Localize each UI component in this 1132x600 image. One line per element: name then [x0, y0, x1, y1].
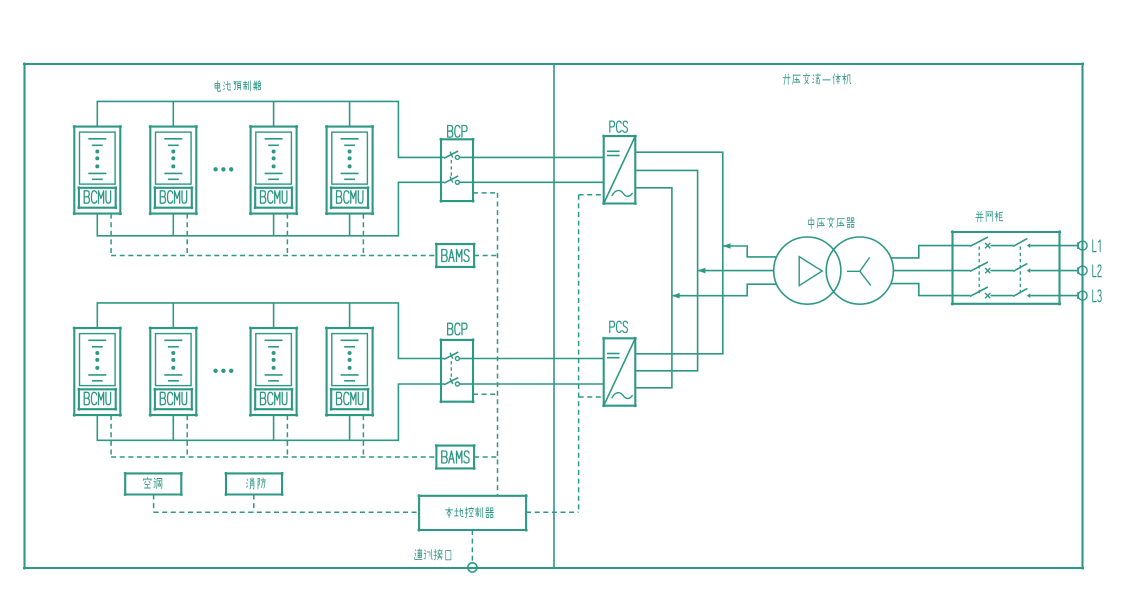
label 通讯接口 (comm interface) — [414, 549, 451, 560]
wire: BCP1 to PCS1 line A — [473, 156, 604, 158]
wire: battery top drop — [172, 101, 174, 126]
dashed wire: BCMU comm drop — [286, 214, 288, 256]
BAMS box row 1 — [435, 243, 476, 269]
battery rack 1-3 with BCMU — [249, 125, 298, 215]
label 并网柜 (grid cabinet) — [976, 211, 1003, 221]
dashed wire: comm trunk vertical — [497, 193, 499, 496]
PCS converter 1 (top) — [602, 121, 636, 205]
dashed wire: BAMS comm bus row 2 — [111, 456, 436, 458]
BCP breaker box 2 — [440, 323, 475, 403]
dashed wire: BCP1 comm — [473, 192, 498, 194]
transformer T1 delta winding circle — [774, 237, 841, 304]
wire: battery top drop — [349, 303, 351, 328]
dashed wire: BCP2 comm — [473, 393, 498, 395]
wire: battery bottom drop — [349, 415, 351, 440]
breaker pole — [441, 156, 445, 158]
wire: DC bus bottom row 1 — [97, 182, 441, 236]
dashed wire: BCMU comm drop — [186, 415, 188, 457]
label 空调 (air conditioning) — [143, 477, 162, 488]
cabinet feeder row 2 — [953, 262, 1060, 273]
wire: BCP2 to PCS2 line B — [473, 383, 604, 385]
label 电池预制舱 (battery container) — [215, 81, 261, 92]
dashed wire: PCS1 comm stub — [579, 194, 604, 196]
local controller box 本地控制器 — [418, 494, 528, 531]
battery rack 2-2 with BCMU — [149, 327, 198, 417]
wire: transformer to cabinet phase 3 — [891, 284, 953, 296]
dashed wire: BCMU comm drop — [362, 214, 364, 256]
label 消防 (fire protection) — [246, 478, 265, 489]
wire: tap phase 2 to transformer — [698, 270, 774, 272]
outer enclosure frame — [23, 63, 1084, 570]
wire: BCP1 to PCS1 line B — [473, 181, 604, 183]
cabinet linkage dashed 1 — [978, 247, 980, 296]
label 升压变流一体机 (boost converter unit) — [783, 73, 851, 84]
BAMS box row 2 — [435, 444, 476, 470]
wire: battery bottom drop — [172, 214, 174, 236]
wire: battery bottom drop — [273, 214, 275, 236]
breaker linkage dashed — [450, 361, 452, 380]
PCS converter 2 (bottom) — [602, 321, 636, 407]
battery rack 2-4 with BCMU — [325, 327, 374, 417]
wire: battery top drop — [273, 303, 275, 328]
ellipsis dots between racks — [213, 167, 217, 171]
breaker pole — [441, 358, 445, 360]
wye symbol — [847, 257, 871, 285]
dashed wire: BAMS to controller trunk — [474, 255, 497, 257]
dashed wire: BAMS comm bus row 1 — [111, 255, 436, 257]
wire: DC bus bottom row 2 — [97, 384, 441, 440]
wire: BCP2 to PCS2 line A — [473, 358, 604, 360]
transformer T1 wye winding circle — [826, 237, 893, 304]
ellipsis dots between racks — [213, 369, 217, 373]
dashed wire: aircon drop — [153, 495, 155, 513]
dashed wire: controller to PCS trunk — [526, 511, 579, 513]
battery rack 2-3 with BCMU — [249, 327, 298, 417]
wire: battery top drop — [349, 101, 351, 126]
air conditioner box 空调 — [124, 472, 183, 496]
wire: tap phase 1 to transformer — [723, 246, 777, 257]
dashed wire: PCS comm trunk vertical — [578, 195, 580, 513]
terminal L3 — [1060, 290, 1102, 302]
comm port terminal circle — [468, 563, 477, 572]
cabinet feeder row 3 — [953, 287, 1060, 298]
arrow junction phase 2 — [698, 268, 706, 274]
breaker linkage dashed — [450, 160, 452, 178]
dashed wire: fire drop — [253, 495, 255, 513]
dashed wire: aux comm bus — [154, 511, 420, 513]
wire: transformer to cabinet phase 1 — [891, 246, 952, 258]
wire: battery bottom drop — [273, 415, 275, 440]
breaker pole — [441, 383, 445, 385]
terminal L1 — [1060, 240, 1101, 252]
breaker pole — [441, 181, 445, 183]
dashed wire: BCMU comm drop — [110, 214, 112, 256]
battery rack 1-1 with BCMU — [73, 125, 122, 215]
label 本地控制器 (local controller) — [445, 507, 493, 518]
label 中压变压器 (MV transformer) — [808, 217, 854, 229]
dashed wire: BAMS to controller trunk — [474, 456, 497, 458]
fire protection box 消防 — [225, 472, 284, 496]
cabinet feeder row 1 — [953, 237, 1060, 248]
wire: transformer to cabinet phase 2 — [893, 270, 952, 272]
arrow junction phase 1 — [723, 243, 731, 249]
arrow junction phase 3 — [672, 293, 680, 299]
wire: battery top drop — [172, 303, 174, 328]
dashed wire: controller down to comm port — [471, 530, 473, 563]
dashed wire: BCMU comm drop — [110, 415, 112, 457]
dashed wire: BCMU comm drop — [186, 214, 188, 256]
wire: DC bus top row 1 — [97, 101, 441, 157]
wire: AC phase bus 1 — [636, 152, 723, 354]
wire: DC bus top row 2 — [97, 303, 441, 359]
wire: tap phase 3 to transformer — [672, 284, 777, 296]
dashed wire: BCMU comm drop — [362, 415, 364, 457]
dashed wire: BCMU comm drop — [286, 415, 288, 457]
BCP breaker box 1 — [440, 126, 475, 203]
wire: battery bottom drop — [349, 214, 351, 236]
terminal L2 — [1060, 265, 1102, 277]
battery rack 1-4 with BCMU — [325, 125, 374, 215]
wire: battery bottom drop — [172, 415, 174, 440]
wire: battery top drop — [273, 101, 275, 126]
wire: AC phase bus 3 — [636, 188, 672, 388]
delta symbol — [799, 257, 822, 286]
battery rack 2-1 with BCMU — [73, 327, 122, 417]
grid-connection cabinet box — [951, 230, 1061, 305]
cabinet linkage dashed 2 — [1019, 247, 1021, 296]
dashed wire: PCS2 comm stub — [579, 396, 604, 398]
battery rack 1-2 with BCMU — [149, 125, 198, 215]
section divider wall — [553, 64, 555, 568]
wire: AC phase bus 2 — [636, 170, 698, 370]
